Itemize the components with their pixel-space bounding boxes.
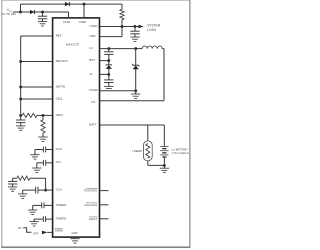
svg-text:REF: REF — [56, 33, 62, 37]
svg-text:BST: BST — [89, 58, 95, 62]
svg-text:SHDN: SHDN — [55, 229, 63, 233]
svg-text:TIMER1: TIMER1 — [56, 203, 67, 207]
svg-text:LX: LX — [89, 46, 93, 50]
svg-text:ON: ON — [18, 226, 22, 230]
svg-text:ISETIN: ISETIN — [56, 84, 65, 88]
svg-text:VADJ: VADJ — [56, 113, 64, 117]
svg-text:GND: GND — [72, 231, 78, 235]
svg-text:CELL: CELL — [56, 96, 64, 100]
svg-text:FAULT: FAULT — [89, 217, 98, 221]
svg-text:CSSN: CSSN — [89, 24, 97, 28]
svg-text:VL: VL — [89, 72, 93, 76]
svg-text:OFF: OFF — [33, 231, 39, 235]
svg-text:CCS: CCS — [56, 147, 62, 151]
svg-text:CCI: CCI — [56, 160, 61, 164]
svg-text:CSSP: CSSP — [79, 20, 87, 24]
svg-text:BATT: BATT — [89, 122, 96, 126]
svg-text:PGND: PGND — [89, 88, 97, 92]
svg-text:FULLCHG: FULLCHG — [84, 203, 97, 207]
svg-text:Li+ BATTERY: Li+ BATTERY — [171, 147, 188, 151]
svg-text:CS: CS — [91, 100, 95, 104]
svg-text:HSD: HSD — [89, 34, 95, 38]
svg-text:FASTCHG: FASTCHG — [84, 189, 97, 193]
svg-text:MAX1737: MAX1737 — [66, 42, 80, 46]
svg-text:1 TO 4 CELLS: 1 TO 4 CELLS — [171, 151, 189, 155]
svg-text:CCV: CCV — [56, 188, 62, 192]
svg-text:ISETOUT: ISETOUT — [56, 59, 69, 63]
svg-text:TIMER2: TIMER2 — [56, 217, 67, 221]
svg-text:LOAD: LOAD — [147, 28, 156, 32]
svg-text:THERM: THERM — [132, 149, 143, 153]
svg-text:DCIN: DCIN — [63, 20, 70, 24]
